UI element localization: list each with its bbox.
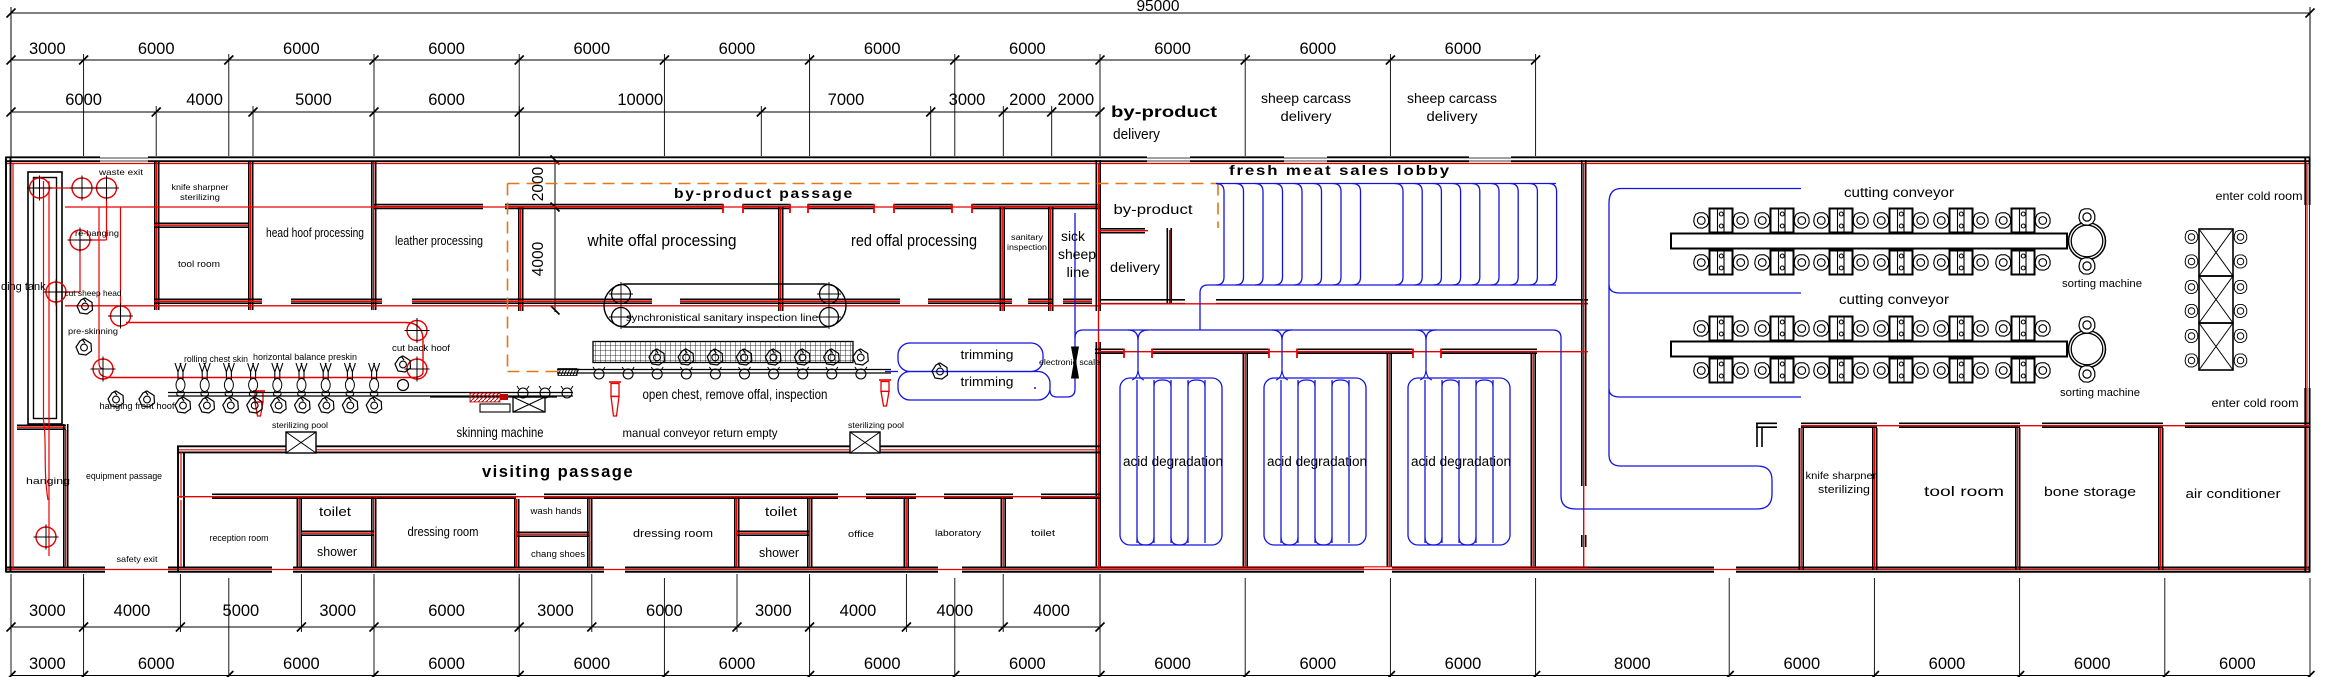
svg-text:sorting machine: sorting machine	[2060, 387, 2140, 399]
svg-text:3000: 3000	[29, 655, 66, 673]
wall stub near 8000 bay	[1757, 423, 1762, 448]
svg-text:re-hanging: re-hanging	[75, 228, 119, 238]
svg-text:head hoof processing: head hoof processing	[266, 226, 364, 240]
svg-text:6000: 6000	[428, 91, 465, 109]
wall: right rooms top	[1756, 422, 1777, 424]
wall red line: right exterior	[2306, 163, 2308, 570]
svg-text:delivery: delivery	[1113, 127, 1161, 143]
red pedestal symbol 1	[609, 382, 621, 416]
svg-text:white offal processing: white offal processing	[587, 231, 737, 250]
wall: acid divider 3 (right)	[1530, 354, 1532, 567]
svg-text:inspection: inspection	[1007, 243, 1047, 252]
svg-text:toilet: toilet	[319, 505, 352, 519]
svg-text:4000: 4000	[1033, 602, 1070, 620]
wall red line: left exterior	[12, 163, 14, 570]
svg-text:6000: 6000	[1009, 655, 1046, 673]
skinning machine symbol	[430, 393, 557, 412]
svg-text:6000: 6000	[428, 40, 465, 58]
wall: fresh meat lobby bottom	[1100, 299, 1185, 301]
sheep shackle icons at hanging front hoof	[108, 391, 155, 407]
wall red line: main process line y=207	[65, 206, 1100, 208]
svg-text:3000: 3000	[537, 602, 574, 620]
svg-text:6000: 6000	[428, 602, 465, 620]
svg-text:hanging front hoof: hanging front hoof	[100, 401, 175, 412]
svg-text:line: line	[1067, 264, 1090, 280]
wall: knife sharpner room left	[154, 162, 156, 310]
sorting machine 2	[2069, 317, 2106, 382]
svg-text:acid degradation: acid degradation	[1123, 454, 1223, 469]
svg-text:toilet: toilet	[765, 505, 798, 519]
sheep shackle icons on grid conveyor	[649, 349, 868, 365]
sterilizing pool box 1	[286, 432, 316, 453]
svg-text:shower: shower	[759, 546, 799, 560]
wall: toilet1/dressing divider	[371, 499, 373, 567]
svg-text:electronic scale: electronic scale	[1039, 358, 1101, 367]
wall: knife sharpner(right) left	[1798, 428, 1800, 570]
blue rail: cutting area serpentine	[1561, 189, 1801, 510]
svg-text:sheep carcass: sheep carcass	[1407, 91, 1497, 106]
wall: lobby-cutting divider x=1584	[1581, 160, 1583, 486]
svg-text:by-product: by-product	[1114, 202, 1193, 217]
W-hooks on rolling chest skin line	[175, 363, 380, 396]
svg-text:2000: 2000	[1058, 91, 1095, 109]
hatched shackle block on rail	[558, 369, 579, 376]
wall: main mid vertical x=1098	[1095, 160, 1097, 311]
red hook-pulley symbols (circle-cross)	[27, 176, 430, 550]
red pedestal symbol 3	[253, 391, 265, 416]
wall: toilet2/shower2 divider	[737, 530, 810, 532]
wall: hanging room top	[17, 424, 66, 426]
svg-text:reception room: reception room	[210, 533, 269, 543]
blue rail: fresh meat lobby top rail	[1216, 183, 1556, 185]
svg-text:4000: 4000	[530, 241, 547, 276]
svg-text:6000: 6000	[1445, 655, 1482, 673]
red process: station drop lines	[99, 207, 121, 369]
svg-text:6000: 6000	[1929, 655, 1966, 673]
omega hooks on open chest rail	[593, 367, 867, 379]
wall: office/laboratory divider	[903, 499, 905, 567]
svg-text:sorting machine: sorting machine	[2062, 278, 2142, 290]
svg-text:6000: 6000	[1154, 655, 1191, 673]
wall: left exterior	[6, 157, 11, 573]
svg-text:6000: 6000	[719, 655, 756, 673]
sheep shackle icons row 1	[175, 397, 382, 413]
svg-text:6000: 6000	[1783, 655, 1820, 673]
svg-text:tool room: tool room	[1924, 483, 2004, 499]
wall: dressing2/toilet2 divider	[734, 499, 736, 567]
svg-text:equipment passage: equipment passage	[86, 471, 162, 482]
svg-text:ding tank: ding tank	[1, 281, 46, 293]
svg-text:wash hands: wash hands	[529, 506, 582, 516]
svg-text:cutting conveyor: cutting conveyor	[1839, 292, 1950, 307]
svg-text:10000: 10000	[617, 91, 663, 109]
svg-text:6000: 6000	[1299, 655, 1336, 673]
cutting stations row1 above/below	[1694, 209, 2050, 275]
blue rail: lobby switch teeth group A	[1216, 184, 1361, 286]
cut sheep head station icon	[77, 298, 93, 314]
wall: head hoof right / leather left	[371, 162, 373, 310]
blue rail: acid room rail loops	[1120, 378, 1510, 545]
wall: right exterior	[2305, 157, 2309, 573]
svg-text:air conditioner: air conditioner	[2186, 487, 2281, 501]
wall: offal block left (leather right)	[518, 207, 520, 311]
svg-text:sheep: sheep	[1058, 246, 1096, 262]
svg-text:knife sharpner: knife sharpner	[1806, 470, 1878, 482]
svg-text:skinning machine: skinning machine	[457, 424, 544, 440]
svg-text:8000: 8000	[1614, 655, 1651, 673]
wall: knife/tool divider	[154, 222, 248, 224]
cutting conveyor bar 1	[1671, 234, 2067, 249]
svg-text:6000: 6000	[719, 40, 756, 58]
wall: sanitary inspection left	[999, 207, 1001, 311]
wall: offal block bottom	[154, 298, 262, 300]
cold room transfer rack (X frames with rollers)	[2185, 229, 2247, 370]
svg-text:dressing room: dressing room	[633, 528, 713, 540]
svg-text:6000: 6000	[138, 40, 175, 58]
door stubs acid rooms	[1124, 349, 1441, 359]
svg-text:red offal processing: red offal processing	[851, 231, 977, 250]
wall: dressing/washhands divider	[514, 499, 516, 567]
wall: offal rooms top (by-product passage south wall)	[505, 204, 723, 206]
cut back hoof station icon	[395, 356, 411, 391]
svg-text:4000: 4000	[840, 602, 877, 620]
svg-text:6000: 6000	[1299, 40, 1336, 58]
svg-text:95000: 95000	[1136, 0, 1179, 15]
svg-text:3000: 3000	[949, 91, 986, 109]
grid conveyor band (synchronistical inspection conveyor)	[593, 342, 853, 363]
blue rail: sick sheep line vertical + electronic scale feed	[1067, 213, 1075, 397]
wall: sanitary/sick sheep divider	[1048, 207, 1050, 311]
wall: washhands/dressing2 divider	[587, 499, 589, 567]
svg-text:3000: 3000	[29, 602, 66, 620]
dimension line: overall 95000	[7, 0, 2315, 157]
wall: by-product delivery room right	[1166, 228, 1168, 303]
wall: toilet1/shower1 divider	[301, 530, 374, 532]
svg-text:trimming: trimming	[961, 347, 1014, 362]
wall: laboratory/toilet3 divider	[1000, 499, 1002, 567]
wall: bone storage left	[2015, 428, 2017, 570]
svg-text:4000: 4000	[186, 91, 223, 109]
wall: toilet2/office divider	[807, 499, 809, 567]
wall: hanging room right	[63, 424, 65, 567]
wall: bottom exterior	[6, 568, 2310, 572]
svg-text:knife sharpner: knife sharpner	[172, 182, 229, 192]
svg-text:tool room: tool room	[178, 259, 220, 269]
svg-text:3000: 3000	[29, 40, 66, 58]
svg-text:fresh meat sales lobby: fresh meat sales lobby	[1229, 163, 1451, 178]
svg-text:3000: 3000	[755, 602, 792, 620]
red process: waste exit loop top	[35, 188, 107, 306]
wall: tool room left	[1872, 428, 1874, 570]
svg-text:6000: 6000	[864, 655, 901, 673]
wall: acid divider 2	[1386, 354, 1388, 567]
svg-text:shower: shower	[317, 545, 357, 559]
svg-text:6000: 6000	[283, 40, 320, 58]
blue rail: acid room feeds	[1128, 330, 1436, 380]
svg-text:sterilizing: sterilizing	[180, 192, 220, 202]
svg-text:sanitary: sanitary	[1011, 233, 1043, 242]
svg-text:acid degradation: acid degradation	[1411, 454, 1511, 469]
svg-text:by-product passage: by-product passage	[674, 186, 854, 201]
svg-text:delivery: delivery	[1110, 260, 1160, 275]
dimension row B (bottom outer)	[7, 578, 2315, 677]
svg-text:sick: sick	[1061, 228, 1086, 244]
svg-text:sterilizing: sterilizing	[1818, 484, 1870, 496]
red pedestal symbol 2	[879, 380, 891, 406]
svg-text:6000: 6000	[2219, 655, 2256, 673]
svg-text:cut sheep head: cut sheep head	[65, 288, 122, 298]
red process: slaughter line loop	[99, 323, 423, 378]
svg-text:6000: 6000	[65, 91, 102, 109]
wall: visiting passage north	[177, 446, 1100, 452]
svg-text:sterilizing pool: sterilizing pool	[272, 420, 328, 430]
svg-text:rolling chest skin: rolling chest skin	[184, 354, 248, 365]
svg-text:cutting conveyor: cutting conveyor	[1844, 185, 1955, 200]
svg-text:waste exit: waste exit	[98, 167, 144, 177]
svg-text:visiting passage: visiting passage	[482, 462, 634, 481]
wall: reception/toilet divider	[296, 499, 298, 567]
loading corridor double box	[28, 172, 62, 424]
wall red line: acid bottom	[1095, 566, 1588, 568]
wall: knife room right / head hoof left	[248, 162, 250, 310]
svg-text:7000: 7000	[828, 91, 865, 109]
wall: by-product delivery room top	[1100, 228, 1145, 230]
svg-text:manual conveyor return empty: manual conveyor return empty	[623, 426, 778, 440]
blue rail: lobby switch teeth group B	[1395, 184, 1557, 286]
svg-text:office: office	[848, 529, 874, 539]
svg-text:6000: 6000	[138, 655, 175, 673]
svg-text:laboratory: laboratory	[935, 528, 982, 538]
svg-text:4000: 4000	[114, 602, 151, 620]
cutting stations row2 above/below	[1694, 317, 2050, 383]
svg-text:6000: 6000	[1154, 40, 1191, 58]
wall red line: bottom exterior	[6, 569, 2310, 571]
conveyor rail 1 (rolling chest skin line)	[168, 393, 573, 397]
svg-text:6000: 6000	[1009, 40, 1046, 58]
cutting conveyor bar 2	[1671, 342, 2067, 357]
blue rail: fresh meat lobby bottom rail + exit to trident	[1200, 285, 1556, 330]
wall red line: offal block bottom	[65, 305, 1100, 307]
dimension row 2 (6000 4000 5000 6000 10000 7000 3000 2000 2000)	[7, 91, 1105, 156]
svg-text:pre-skinning: pre-skinning	[68, 326, 118, 336]
synchronistical sanitary inspection line stadium	[604, 282, 846, 329]
svg-text:chang shoes: chang shoes	[531, 549, 586, 559]
svg-text:6000: 6000	[573, 655, 610, 673]
svg-text:6000: 6000	[283, 655, 320, 673]
wall: air conditioner left	[2158, 428, 2160, 570]
conveyor rail 2 (open chest line)	[557, 370, 891, 374]
svg-text:5000: 5000	[295, 91, 332, 109]
svg-text:open chest, remove offal, insp: open chest, remove offal, inspection	[643, 386, 828, 402]
svg-text:3000: 3000	[319, 602, 356, 620]
svg-text:cut back hoof: cut back hoof	[392, 343, 450, 354]
wall: reception room left	[178, 500, 184, 572]
svg-text:6000: 6000	[864, 40, 901, 58]
svg-text:delivery: delivery	[1427, 109, 1478, 124]
svg-text:trimming: trimming	[961, 374, 1014, 389]
omega hooks near skinning machine	[517, 386, 573, 398]
wall: washhands/changshoes divider	[517, 531, 590, 533]
svg-text:5000: 5000	[223, 602, 260, 620]
dimension row A (bottom inner)	[7, 574, 1105, 632]
svg-text:6000: 6000	[428, 655, 465, 673]
wall red line: top exterior	[6, 163, 2310, 165]
electronic scale bowtie symbol	[1072, 347, 1079, 378]
wall: leather processing top	[374, 204, 483, 206]
wall: rooms band top	[212, 493, 516, 495]
vertical dimension 2000/4000 at left of offal block	[530, 156, 560, 315]
blue rail: trimming loops	[885, 343, 1050, 400]
svg-text:safety exit: safety exit	[117, 554, 159, 564]
svg-text:2000: 2000	[1009, 91, 1046, 109]
wall: white/red offal divider	[778, 207, 780, 311]
dimension row 1 (top, 3000 + 6000 spans)	[7, 40, 1541, 156]
wall: acid rooms top	[1095, 348, 1124, 350]
svg-text:acid degradation: acid degradation	[1267, 454, 1367, 469]
svg-text:horizontal balance preskin: horizontal balance preskin	[253, 352, 357, 363]
svg-text:delivery: delivery	[1281, 109, 1332, 124]
svg-text:dressing room: dressing room	[408, 524, 479, 539]
svg-text:by-product: by-product	[1111, 104, 1218, 121]
svg-text:hanging: hanging	[26, 476, 70, 487]
door stubs offal top wall	[723, 204, 972, 213]
svg-text:bone storage: bone storage	[2044, 485, 2136, 499]
red process: corridor verticals	[44, 181, 50, 556]
svg-text:6000: 6000	[2074, 655, 2111, 673]
pre-skinning station icon	[76, 339, 92, 355]
orange dashed boundary: by-product passage	[508, 184, 1219, 372]
trimming station sheep icon	[932, 363, 948, 379]
wall: visiting passage west corner	[178, 446, 184, 500]
svg-text:enter cold room: enter cold room	[2212, 396, 2299, 410]
blue rail: trimming connector	[1050, 390, 1067, 397]
wall: top exterior	[6, 157, 2310, 161]
sorting machine 1	[2069, 209, 2106, 274]
svg-text:6000: 6000	[1445, 40, 1482, 58]
svg-text:enter cold room: enter cold room	[2216, 189, 2303, 203]
blue rail: trident horizontal to acid rooms and lobby	[1075, 330, 1561, 338]
svg-text:sterilizing pool: sterilizing pool	[848, 420, 904, 430]
svg-text:synchronistical sanitary inspe: synchronistical sanitary inspection line	[626, 312, 818, 324]
svg-text:leather processing: leather processing	[395, 234, 483, 248]
svg-text:toilet: toilet	[1031, 528, 1056, 538]
wall: acid divider 1	[1242, 354, 1244, 567]
svg-text:sheep carcass: sheep carcass	[1261, 91, 1351, 106]
svg-text:6000: 6000	[573, 40, 610, 58]
sterilizing pool box 2	[850, 432, 880, 453]
